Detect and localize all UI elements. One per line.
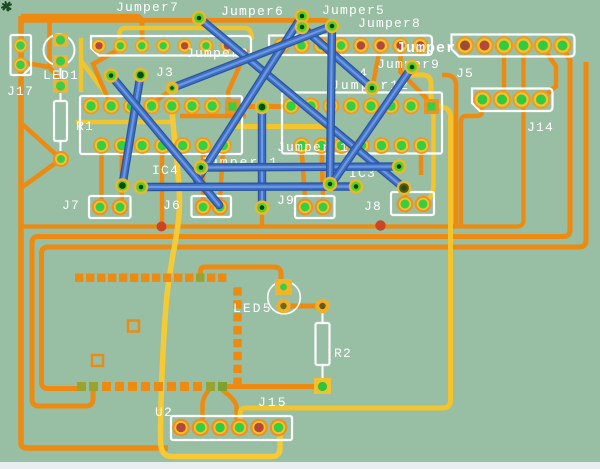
wire orange H1b pad to E1 <box>373 48 380 84</box>
jumper wire B2 <box>302 27 372 88</box>
jumper pad E2 <box>405 60 419 74</box>
wire orange IC right drop <box>419 148 424 175</box>
jumper pad F <box>255 100 269 114</box>
wire orange mid drop to bus <box>160 150 165 226</box>
wire orange LED5 to R2 <box>290 304 316 309</box>
wire orange J17 to diagonal <box>20 62 62 82</box>
wire orange inside IC left <box>180 114 246 119</box>
wire orange H2 pad4 to J14 pad3 joined to bus1 <box>21 48 524 227</box>
LED5 pad top <box>275 279 292 295</box>
jumper wire B15 <box>330 26 332 184</box>
resistor R1 bottom pad <box>53 151 69 167</box>
jumper pad M <box>323 177 337 191</box>
jumper pad J3 <box>166 82 179 95</box>
svg-text:Jumper 1: Jumper 1 <box>277 140 349 155</box>
jumper pad K <box>392 159 406 173</box>
svg-text:R2: R2 <box>334 346 352 361</box>
wire orange H1b pad to square pad <box>401 48 429 100</box>
wire trace top long to pad D <box>21 20 332 26</box>
IC right silkscreen <box>282 93 442 154</box>
LED5 silkscreen circle <box>268 281 301 314</box>
resistor R2 body <box>316 313 330 378</box>
svg-text:IC4: IC4 <box>152 163 179 178</box>
wire orange IC right between rows <box>329 108 334 145</box>
connector J17 silkscreen <box>11 35 32 75</box>
svg-text:J5: J5 <box>456 66 474 81</box>
svg-text:J8: J8 <box>364 199 382 214</box>
U2 pad row top <box>75 274 226 282</box>
wire yellow inside IC left <box>76 120 172 125</box>
H2 pads <box>456 36 572 54</box>
LED1 pad cathode <box>53 55 68 68</box>
jumper pad D <box>325 19 339 33</box>
connector J9 silkscreen <box>295 196 335 218</box>
J8 pads <box>397 196 432 213</box>
jumper pad C <box>295 20 309 34</box>
H1a pads <box>92 39 235 53</box>
svg-text:Jumper3: Jumper3 <box>396 40 466 57</box>
svg-text:LED5: LED5 <box>233 301 273 316</box>
IC left pads bottom <box>93 137 232 154</box>
J15 pads <box>172 419 287 437</box>
J7 pads <box>92 199 129 216</box>
svg-text:J6: J6 <box>163 198 181 213</box>
svg-text:J9: J9 <box>277 193 295 208</box>
jumper wire B16 <box>331 67 412 185</box>
wire orange H2 pad5 to J14 pad4 <box>543 48 556 96</box>
U2 pad column right <box>233 287 241 386</box>
jumper pad G <box>115 178 129 192</box>
wire orange IC to J6 b <box>220 148 223 200</box>
svg-text:J17: J17 <box>7 84 34 99</box>
wire yellow diagonal to IC <box>82 62 110 103</box>
wire orange right of IC right <box>442 75 456 227</box>
H1b pads <box>274 37 429 53</box>
wire orange U2 sq to J15 pad3 <box>222 390 237 420</box>
jumper pad A <box>192 11 206 25</box>
bottom page strip <box>0 462 600 469</box>
corner icon <box>2 2 11 11</box>
jumper wire B6 <box>122 75 140 186</box>
resistor R2 bottom pad <box>314 378 331 394</box>
resistor R1 top pad <box>53 80 68 93</box>
connector J8 silkscreen <box>391 192 434 215</box>
IC left pads top <box>83 98 240 115</box>
jumper wire B8 <box>258 107 266 208</box>
wire yellow branch to J8 <box>426 104 434 202</box>
wire orange diagonal LED area <box>93 48 121 101</box>
svg-text:R1: R1 <box>76 119 94 134</box>
wire orange J3 to IC <box>152 90 171 104</box>
U2 fiducial square 1 <box>128 321 139 332</box>
connector J7 silkscreen <box>89 196 131 218</box>
wire yellow between ICs <box>228 124 336 129</box>
svg-text:U2: U2 <box>155 405 173 420</box>
LED1 pad anode <box>53 34 68 47</box>
svg-text:Jumper7: Jumper7 <box>116 0 179 15</box>
wire yellow right vertical long <box>240 75 451 419</box>
connector J6 silkscreen <box>192 196 232 217</box>
J17 pads <box>13 38 28 72</box>
jumper wire B7 <box>111 76 219 206</box>
IC right pads bottom <box>293 137 430 154</box>
wire yellow jumper long curvy <box>161 110 281 457</box>
wire yellow top-left <box>79 38 84 92</box>
svg-text:J7: J7 <box>62 198 80 213</box>
wire orange H2 pad3 to J14 pad2 <box>502 48 507 92</box>
wire orange IC right to J9 b <box>322 148 324 198</box>
jumper wire B10 <box>141 182 356 191</box>
jumper pad L <box>397 181 411 195</box>
J14 pads <box>473 90 550 108</box>
header H1b silkscreen <box>269 36 432 56</box>
wire orange R1 to left rail X <box>21 123 61 188</box>
wire orange IC to J7 b <box>120 148 125 200</box>
wire orange IC right to J9 a <box>302 148 306 198</box>
connector J15 silkscreen <box>171 416 292 440</box>
svg-text:J3: J3 <box>156 65 174 80</box>
wire orange pad L to J8 <box>403 190 408 200</box>
header H2 silkscreen <box>452 35 575 57</box>
U2 fiducial square 2 <box>92 355 103 366</box>
jumper wire B3 <box>197 16 302 180</box>
svg-text:Jumper6: Jumper6 <box>221 4 284 19</box>
jumper wire B9 <box>201 167 399 168</box>
LED5 pad bottom <box>276 299 290 313</box>
jumper pad F2 <box>255 200 269 214</box>
resistor R2 top pad <box>315 299 330 314</box>
wire trace thick top short <box>21 16 142 42</box>
jumper wire B1 <box>199 18 404 188</box>
J6 pads <box>195 199 229 216</box>
jumper pad B <box>295 9 309 23</box>
wire orange diag H1 to IC pads <box>228 49 247 102</box>
wire orange IC to J7 a <box>99 148 104 200</box>
LED1 silkscreen circle <box>44 35 75 66</box>
wire orange bus2 from H2 pad6 <box>32 48 570 406</box>
IC right pads top <box>283 98 439 115</box>
jumper pad J <box>349 179 363 193</box>
wire orange J14 pad1 to bus1 <box>461 101 482 226</box>
wire orange U2 sq to J15 pad2 <box>203 390 210 420</box>
wire orange F2 to bus <box>260 214 265 226</box>
resistor R1 body <box>54 68 67 152</box>
jumper wire B4 <box>172 26 332 88</box>
wire yellow horizontal top <box>120 28 253 44</box>
svg-text:LED1: LED1 <box>43 68 79 83</box>
wire orange bus3 right rail <box>42 62 587 389</box>
svg-text:Jumper8: Jumper8 <box>358 16 421 31</box>
via red right <box>375 220 385 230</box>
jumper pad Pa <box>104 68 118 82</box>
wire orange R2 to U2 bottom <box>227 384 316 389</box>
header H1a silkscreen <box>91 36 251 56</box>
wire orange between ICs <box>238 104 290 109</box>
jumper pad Pb <box>133 68 147 82</box>
jumper pad H <box>134 180 148 194</box>
wire trace vertical left of LED1 <box>47 20 52 67</box>
connector J14 silkscreen <box>472 89 553 112</box>
IC left silkscreen <box>80 96 242 154</box>
wire orange IC to J6 a <box>201 148 206 200</box>
J9 pads <box>297 199 332 216</box>
wire trace left rail with bottom run <box>21 16 168 448</box>
svg-text:J15: J15 <box>258 395 288 410</box>
U2 pad row bottom <box>77 382 227 391</box>
jumper pad E1 <box>365 81 379 95</box>
svg-text:J14: J14 <box>527 120 554 135</box>
jumper pad I <box>194 160 208 174</box>
wire orange U2 top to LED5 <box>201 267 282 284</box>
via red left <box>157 222 167 232</box>
